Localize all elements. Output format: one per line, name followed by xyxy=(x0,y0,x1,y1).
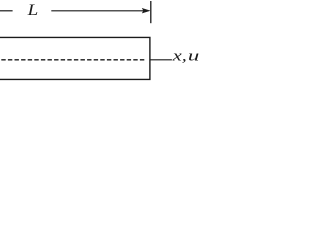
arrowhead xyxy=(142,8,150,13)
svg-text:u: u xyxy=(188,48,200,65)
axis line xyxy=(150,59,172,61)
svg-text:L: L xyxy=(26,2,38,19)
dashed centerline xyxy=(1,59,144,61)
dimension line right segment xyxy=(51,10,144,12)
bar outline xyxy=(0,37,150,79)
dimension tick xyxy=(150,1,152,23)
svg-text:x,: x, xyxy=(171,48,186,65)
dimension line left segment xyxy=(0,10,13,12)
